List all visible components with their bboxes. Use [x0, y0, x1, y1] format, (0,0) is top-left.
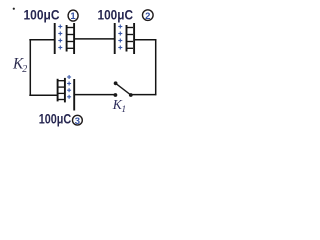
switch K1 pivot dot [114, 81, 118, 85]
capacitor C1 plus charges [58, 25, 62, 50]
wire: left vertical (K2 branch) [29, 40, 31, 95]
capacitor C2 plus charges [118, 25, 122, 50]
capacitor C2 inner plate [126, 25, 128, 52]
svg-text:3: 3 [75, 116, 80, 127]
wire: bottom rail from C3 to switch [74, 94, 115, 96]
svg-text:100μC: 100μC [39, 112, 71, 128]
wire: bottom rail right segment [131, 94, 157, 96]
capacitor C2 left plate [114, 23, 116, 54]
wire: right vertical [155, 39, 157, 95]
wire: top rail right segment [134, 39, 156, 41]
svg-text:1: 1 [70, 11, 76, 22]
switch K1 blade [116, 83, 131, 95]
capacitor C3 minus charges (rungs) [58, 81, 65, 100]
capacitor C3 left plate [57, 79, 59, 102]
node number 3 circle [73, 115, 83, 125]
capacitor C1 left plate [54, 23, 56, 54]
capacitor C1 inner plate [66, 25, 68, 52]
capacitor C2 right plate [133, 23, 135, 54]
wire: top rail left segment [29, 39, 54, 41]
svg-text:100μC: 100μC [98, 8, 134, 24]
svg-text:2: 2 [145, 11, 150, 22]
node number 1 circle [68, 10, 78, 21]
wire: bottom rail left segment [29, 94, 57, 96]
stray dot [13, 8, 15, 10]
switch K1 left contact dot [114, 93, 118, 97]
capacitor C2 minus charges (rungs) [127, 28, 134, 49]
wire: top rail between C1 and C2 [74, 38, 115, 40]
capacitor C3 right plate [73, 79, 75, 111]
switch K1 right contact dot [129, 93, 133, 97]
svg-text:100μC: 100μC [24, 8, 60, 24]
capacitor C3 plus charges [67, 75, 71, 99]
node number 2 circle [143, 10, 154, 21]
capacitor C1 minus charges (rungs) [67, 28, 74, 49]
capacitor C1 right plate [73, 23, 75, 54]
capacitor C3 inner plate [64, 78, 66, 103]
